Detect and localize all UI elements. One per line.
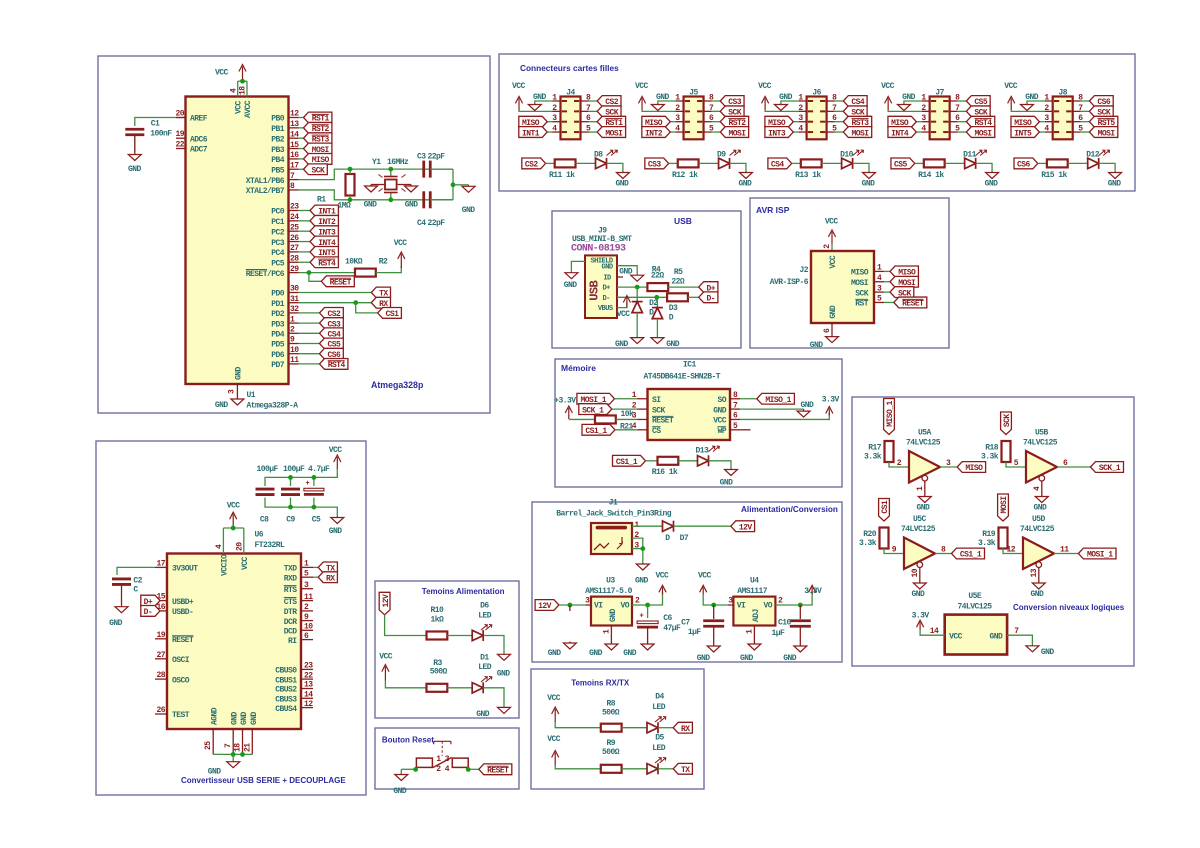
ground right rail <box>468 185 470 187</box>
wire PC3 to flag <box>299 241 311 243</box>
svg-text:DCD: DCD <box>284 628 298 637</box>
pin 2 stub of J4 <box>562 110 567 112</box>
ground of D1 <box>503 706 505 707</box>
wire right pin 8 of J8 <box>1081 100 1090 102</box>
svg-text:74LVC125: 74LVC125 <box>1023 439 1058 448</box>
pin 4 wire left of J8 <box>1045 131 1053 133</box>
svg-text:GND: GND <box>1108 180 1122 189</box>
pin WP stub wire <box>740 429 751 431</box>
svg-text:22: 22 <box>304 671 313 680</box>
svg-text:22pF: 22pF <box>428 219 446 228</box>
svg-text:GND: GND <box>602 263 613 271</box>
svg-text:GND: GND <box>393 787 407 796</box>
svg-text:R10: R10 <box>431 606 445 615</box>
svg-text:SCK_1: SCK_1 <box>582 406 604 415</box>
svg-text:AVCC: AVCC <box>244 100 253 118</box>
pin 3 wire left of J4 <box>553 121 561 123</box>
net flag CS4 of J6 <box>843 96 867 107</box>
wire R3 to D1 <box>447 687 472 689</box>
svg-text:C4: C4 <box>417 219 426 228</box>
svg-text:10: 10 <box>290 346 299 355</box>
svg-text:2: 2 <box>290 326 295 335</box>
capacitor C10 1uF <box>799 605 801 619</box>
svg-text:U5E: U5E <box>968 592 982 601</box>
pin 4 stub of J6 <box>808 131 813 133</box>
svg-text:6: 6 <box>1063 459 1068 468</box>
net flag MISO of J4 <box>519 116 547 127</box>
svg-text:1: 1 <box>877 264 882 273</box>
LED D8 <box>596 158 607 168</box>
svg-text:GND: GND <box>235 366 244 380</box>
svg-text:GND: GND <box>697 654 711 663</box>
wire D7 to 12V flag <box>674 525 731 527</box>
svg-text:AVR-ISP-6: AVR-ISP-6 <box>770 278 809 287</box>
wire R16 to D13 <box>678 460 697 462</box>
svg-text:VCC: VCC <box>881 82 895 91</box>
svg-text:Mémoire: Mémoire <box>561 363 596 373</box>
svg-text:GND: GND <box>623 649 637 658</box>
svg-text:2: 2 <box>897 459 902 468</box>
wire right pin 5 of J5 <box>712 131 721 133</box>
net flag SCK_1 <box>579 404 612 415</box>
wire pin3 to ground <box>632 549 643 563</box>
svg-text:10: 10 <box>304 623 313 632</box>
svg-text:D+: D+ <box>602 285 610 293</box>
svg-text:28: 28 <box>156 671 165 680</box>
wire VCC to U4 VI <box>703 594 728 605</box>
svg-text:TEST: TEST <box>172 711 190 720</box>
svg-text:CS: CS <box>652 427 661 436</box>
ground of LED chain J8 <box>1114 172 1116 173</box>
crystal case ground left <box>371 184 385 186</box>
connector J4 body <box>561 97 581 140</box>
svg-text:3: 3 <box>304 581 309 590</box>
junction crystal bottom <box>388 197 393 202</box>
wire RESET to R2 and flag <box>299 272 356 274</box>
svg-text:VCC: VCC <box>656 571 670 580</box>
pin 1 stub of J7 <box>931 100 936 102</box>
wire right pin 8 of J5 <box>712 100 721 102</box>
svg-text:ADC7: ADC7 <box>190 146 208 155</box>
pin 2 stub of J8 <box>1054 110 1059 112</box>
wire down to RESET flag <box>309 273 321 282</box>
ground of IC1 <box>803 409 805 411</box>
svg-text:3: 3 <box>877 284 882 293</box>
wire D11 to ground <box>976 163 992 171</box>
svg-text:J7: J7 <box>935 89 944 98</box>
svg-text:INT3: INT3 <box>768 129 786 138</box>
pin 7 wire right of J8 <box>1073 110 1081 112</box>
svg-text:GND: GND <box>985 180 999 189</box>
wire AREF to C1 <box>135 118 176 127</box>
capacitor C2 <box>112 578 131 581</box>
VCC arrow U3 <box>662 587 664 594</box>
wire PB3 to flag <box>299 148 304 150</box>
svg-text:23: 23 <box>290 203 299 212</box>
net flag TX LED <box>673 763 692 774</box>
svg-text:VCC: VCC <box>379 653 393 662</box>
svg-text:C3: C3 <box>417 153 426 162</box>
connector J2 body <box>811 251 874 323</box>
wire MISO to pin 3 of J8 <box>1039 121 1044 123</box>
pin 4 stub of J4 <box>562 131 567 133</box>
svg-text:D7: D7 <box>680 534 689 543</box>
svg-text:8: 8 <box>941 546 946 555</box>
svg-text:OSCO: OSCO <box>172 676 190 685</box>
svg-text:R5: R5 <box>674 268 683 277</box>
pin 14 VCC of U5E <box>920 630 945 636</box>
svg-text:INT4: INT4 <box>891 129 909 138</box>
net flag INT2 of J5 <box>642 127 670 138</box>
crystal case ground right <box>398 184 411 186</box>
svg-text:C8: C8 <box>260 516 269 525</box>
wire bottom rail decoupling <box>265 498 337 517</box>
junction VO U4 <box>798 603 803 608</box>
wire CS6 to R15 <box>1038 162 1047 164</box>
resistor R3 500 <box>427 684 448 692</box>
wire right pin 8 of J4 <box>589 100 598 102</box>
net flag INT3 of J6 <box>765 127 793 138</box>
junction bottom rail C5 <box>312 505 317 510</box>
wire right pin 6 of J6 <box>835 121 844 123</box>
wire ground to pin 1 of J7 <box>904 101 922 104</box>
pin 3 wire left of J6 <box>799 121 807 123</box>
svg-text:GND: GND <box>829 305 838 319</box>
svg-text:CS3: CS3 <box>648 161 662 170</box>
svg-text:GND: GND <box>462 206 476 215</box>
regulator U3 body <box>591 597 632 626</box>
svg-text:25: 25 <box>290 223 299 232</box>
resistor R18 3.3k vertical <box>1002 441 1011 462</box>
svg-text:R20: R20 <box>863 530 877 539</box>
svg-text:3.3k: 3.3k <box>864 453 882 462</box>
ground stub near 12V <box>569 642 571 644</box>
net flag SCK of J4 <box>597 106 621 117</box>
svg-text:CTS: CTS <box>284 598 298 607</box>
pin 2 stub of J6 <box>808 110 813 112</box>
svg-text:16: 16 <box>156 603 165 612</box>
wire VCC to R9 <box>555 765 601 769</box>
pin 7 wire right of J7 <box>950 110 958 112</box>
svg-text:U5B: U5B <box>1035 429 1049 438</box>
wire right pin 7 of J7 <box>958 110 967 112</box>
junction RX row <box>353 300 358 305</box>
wire VCC to pin 2 of J5 <box>642 110 676 113</box>
svg-text:GND: GND <box>616 180 630 189</box>
wire PB2 to flag <box>299 137 304 139</box>
svg-text:14: 14 <box>930 627 939 636</box>
switch S1 contact left <box>416 758 432 767</box>
svg-text:PC5: PC5 <box>271 259 285 268</box>
svg-text:Y1: Y1 <box>372 158 381 167</box>
enable bubble of U5D <box>1036 562 1042 568</box>
ground SHIELD <box>570 272 572 273</box>
wire bottom GND bus of U6 <box>213 753 252 755</box>
svg-text:PD6: PD6 <box>271 351 285 360</box>
ground of U5B <box>1041 496 1043 497</box>
svg-text:RESET: RESET <box>330 279 352 288</box>
svg-text:D-: D- <box>144 608 153 617</box>
ground of J9 GND pin <box>636 274 638 275</box>
svg-text:Atmega328p: Atmega328p <box>371 380 424 390</box>
pin 8 wire right of J4 <box>581 100 589 102</box>
ground of LED chain J4 <box>622 172 624 173</box>
svg-text:J1: J1 <box>609 499 618 508</box>
section frame Alimentation/Conversion <box>532 502 842 662</box>
net flag INT5 <box>310 247 338 258</box>
svg-text:12V: 12V <box>382 594 391 608</box>
wire to CS1 flag <box>356 303 378 313</box>
svg-text:22Ω: 22Ω <box>651 272 665 281</box>
wire right pin 7 of J6 <box>835 110 844 112</box>
svg-text:C: C <box>133 586 138 595</box>
pin 3 wire left of J5 <box>676 121 684 123</box>
svg-text:3.3k: 3.3k <box>981 453 999 462</box>
pin 25 PC2 of U1 <box>289 230 299 232</box>
svg-text:MOSI: MOSI <box>851 279 869 288</box>
net flag CS4 <box>320 328 344 339</box>
net flag MISO of J8 <box>1011 116 1039 127</box>
svg-text:22pF: 22pF <box>428 153 446 162</box>
svg-text:GND: GND <box>810 341 824 350</box>
svg-text:RX: RX <box>681 725 690 734</box>
wire CS1_1 to R16 <box>646 460 658 462</box>
net flag SCK of J7 <box>966 106 990 117</box>
svg-text:27: 27 <box>156 651 165 660</box>
ground of LED chain J6 <box>868 172 870 173</box>
pin 29 RESET/PC6 of U1 <box>289 272 299 274</box>
svg-text:WP: WP <box>717 427 726 436</box>
pin 27 PC4 of U1 <box>289 251 299 253</box>
svg-text:10: 10 <box>911 568 920 577</box>
pin 8 wire right of J8 <box>1073 100 1081 102</box>
junction R1 bottom <box>348 197 353 202</box>
svg-text:7: 7 <box>224 743 233 748</box>
svg-text:29: 29 <box>290 265 299 274</box>
net flag RST4 <box>320 359 348 370</box>
enable bubble of U5A <box>922 475 928 481</box>
svg-text:CONN-08193: CONN-08193 <box>571 244 626 255</box>
svg-text:J4: J4 <box>566 89 575 98</box>
pin 1 GND of U3 <box>610 626 612 644</box>
net flag CS6 LED chain <box>1014 158 1038 169</box>
pin 16 PB4 of U1 <box>289 158 299 160</box>
net flag CS3 <box>320 318 344 329</box>
wire switch to RESET flag <box>468 768 479 770</box>
wire TXD to flag TX <box>313 566 318 568</box>
net flag RESET of switch <box>479 764 512 775</box>
svg-text:500Ω: 500Ω <box>430 668 448 677</box>
pin 7 XTAL1/PB6 of U1 <box>289 179 299 181</box>
svg-text:2: 2 <box>635 597 640 606</box>
connector J8 body <box>1053 97 1073 140</box>
svg-text:GND: GND <box>215 401 229 410</box>
net flag SCK <box>304 164 328 175</box>
wire PD2 <box>299 312 320 314</box>
resistor R10 1k <box>427 632 448 640</box>
svg-text:TXD: TXD <box>284 565 298 574</box>
junction right rail <box>451 182 456 187</box>
junction GND bus 1 <box>231 752 236 757</box>
connector J5 body <box>684 97 704 140</box>
wire output of U5A <box>940 466 957 468</box>
svg-text:C1: C1 <box>151 120 160 129</box>
net flag CS1 <box>378 308 402 319</box>
net flag MISO of J5 <box>642 116 670 127</box>
net flag 12V input <box>535 600 559 611</box>
svg-text:J5: J5 <box>689 89 698 98</box>
pin 11 PD7 of U1 <box>289 363 299 365</box>
ground of U3 <box>610 643 612 644</box>
svg-text:2: 2 <box>304 603 309 612</box>
wire INT5 to pin 4 of J8 <box>1039 131 1044 133</box>
wire right pin 7 of J5 <box>712 110 721 112</box>
IC U6 body <box>167 554 301 730</box>
net flag MOSI_1 <box>577 393 615 404</box>
svg-text:RST: RST <box>855 300 869 309</box>
svg-text:19: 19 <box>156 631 165 640</box>
svg-text:SCK: SCK <box>312 166 326 175</box>
net flag SCK_1 of U5B <box>1091 462 1124 473</box>
net flag SCK vertical <box>1001 412 1012 435</box>
VCC pullup arrow <box>400 254 402 268</box>
wire VBUS to VCC <box>617 302 627 308</box>
pin 1 wire left of J5 <box>676 100 684 102</box>
net flag CS6 of J8 <box>1089 96 1113 107</box>
wire ground to pin 1 of J4 <box>535 101 553 104</box>
svg-text:D8: D8 <box>594 150 603 159</box>
wire right pin 6 of J4 <box>589 121 598 123</box>
wire right pin 5 of J8 <box>1081 131 1090 133</box>
pin 2 wire left of J7 <box>922 110 930 112</box>
svg-text:5: 5 <box>1014 459 1019 468</box>
svg-text:R8: R8 <box>607 700 616 709</box>
net flag MOSI of J5 <box>720 127 748 138</box>
svg-text:VI: VI <box>737 602 746 611</box>
wire D12 to ground <box>1099 163 1115 171</box>
section frame Bouton Reset <box>375 728 519 789</box>
pin 1 PD3 of U1 <box>289 322 299 324</box>
svg-text:PC4: PC4 <box>271 249 285 258</box>
wire C2 to ground <box>121 585 123 606</box>
net flag MISO of U5A <box>957 462 985 473</box>
diode D3 <box>656 297 658 307</box>
buffer U5A triangle <box>909 451 940 483</box>
pin 8 wire right of J6 <box>827 100 835 102</box>
svg-text:RI: RI <box>288 637 297 646</box>
svg-text:5: 5 <box>304 569 309 578</box>
ground of J1 <box>642 563 644 564</box>
svg-text:14: 14 <box>304 691 313 700</box>
pin 4 wire left of J6 <box>799 131 807 133</box>
svg-text:R14 1k: R14 1k <box>918 171 944 180</box>
svg-text:1: 1 <box>746 629 755 634</box>
svg-text:15: 15 <box>156 593 165 602</box>
svg-text:RESET/PC6: RESET/PC6 <box>246 270 285 279</box>
pin 1 stub of J4 <box>562 100 567 102</box>
svg-text:CBUS1: CBUS1 <box>275 676 297 685</box>
pin 1 wire left of J6 <box>799 100 807 102</box>
ground of C10 <box>799 645 801 646</box>
wire D8 to ground <box>607 163 623 171</box>
svg-text:U4: U4 <box>750 577 759 586</box>
resistor R11 1k <box>555 159 576 167</box>
wire D1 to ground <box>483 688 504 707</box>
LED D10 <box>842 158 853 168</box>
svg-text:3: 3 <box>228 389 237 394</box>
ground of U5C <box>919 582 921 583</box>
svg-text:MISO: MISO <box>851 269 869 278</box>
net flag INT4 of J7 <box>888 127 916 138</box>
net flag INT4 <box>310 236 338 247</box>
svg-text:GND: GND <box>405 201 419 210</box>
net flag MISO of J7 <box>888 116 916 127</box>
svg-text:15: 15 <box>290 141 299 150</box>
net flag RST5 of J8 <box>1089 116 1117 127</box>
svg-text:INT1: INT1 <box>522 129 540 138</box>
svg-text:100nF: 100nF <box>150 130 172 139</box>
net flag RST4 of J7 <box>966 116 994 127</box>
wire VCC rail top <box>265 469 337 486</box>
svg-text:VCC: VCC <box>215 69 229 78</box>
pin 3 stub of J6 <box>808 121 813 123</box>
net flag MOSI of J7 <box>966 127 994 138</box>
svg-text:RST4: RST4 <box>318 259 336 268</box>
pin 13 PB1 of U1 <box>289 127 299 129</box>
resistor R12 1k <box>678 159 699 167</box>
net flag RESET of J2 <box>894 297 927 308</box>
svg-text:26: 26 <box>290 234 299 243</box>
LED D12 <box>1088 158 1099 168</box>
net flag RST1 of J4 <box>597 116 625 127</box>
junction C7 <box>711 603 716 608</box>
resistor R15 1k <box>1047 159 1068 167</box>
svg-text:CBUS0: CBUS0 <box>275 667 297 676</box>
pin 6 wire right of J4 <box>581 121 589 123</box>
svg-text:10k: 10k <box>621 410 635 419</box>
pin 7 wire right of J5 <box>704 110 712 112</box>
ground decoupling rail <box>336 517 338 518</box>
wire D4 to RX flag <box>658 727 673 729</box>
wire right pin 8 of J6 <box>835 100 844 102</box>
wire GND pin to ground <box>617 266 637 275</box>
pin 1 wire left of J4 <box>553 100 561 102</box>
net flag MOSI of J4 <box>597 127 625 138</box>
svg-text:AMS1117: AMS1117 <box>737 587 768 596</box>
svg-text:GND: GND <box>548 649 562 658</box>
svg-text:8: 8 <box>290 182 295 191</box>
net flag MOSI of J6 <box>843 127 871 138</box>
svg-text:1 3: 1 3 <box>436 755 450 764</box>
svg-text:ID: ID <box>603 274 611 282</box>
svg-text:VCC: VCC <box>547 694 561 703</box>
resistor R17 3.3k vertical <box>885 441 894 462</box>
wire 12V to R10 <box>385 615 427 636</box>
svg-text:3.3k: 3.3k <box>978 539 996 548</box>
section frame Connecteurs cartes filles <box>499 54 1135 191</box>
svg-text:R15 1k: R15 1k <box>1041 171 1067 180</box>
svg-text:3.3V: 3.3V <box>804 587 822 596</box>
svg-text:GND: GND <box>917 504 931 513</box>
junction top rail C9 <box>288 475 293 480</box>
junction D+ <box>635 285 640 290</box>
net flag CS5 LED chain <box>891 158 915 169</box>
regulator U4 body <box>733 597 775 626</box>
wire R8 to D4 <box>622 727 647 729</box>
svg-text:1MΩ: 1MΩ <box>338 202 352 211</box>
svg-text:VCC: VCC <box>617 310 631 319</box>
diode D2 <box>636 287 638 302</box>
